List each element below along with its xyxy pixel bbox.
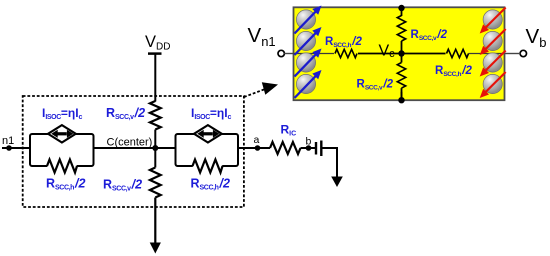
dashed box (scc model) <box>23 96 244 207</box>
sphere L2 <box>296 31 315 50</box>
svg-text:RSCC,v/2: RSCC,v/2 <box>103 178 142 193</box>
dashed arrow to yellow box <box>244 89 266 97</box>
sphere L3 <box>296 53 315 72</box>
wire Vn1 to box <box>284 53 295 55</box>
current source U2 arrow <box>203 132 213 135</box>
svg-text:RSCC,v/2: RSCC,v/2 <box>106 106 145 121</box>
svg-text:RIC: RIC <box>281 123 297 138</box>
sphere L1 <box>296 10 315 29</box>
current source loop left <box>30 134 94 166</box>
resistor Rscc,h/2 right (erase edge) <box>193 163 222 169</box>
wire resistor to center node <box>154 130 156 149</box>
sphere R3 <box>483 53 502 72</box>
wire n1 stub <box>2 147 30 149</box>
wire horizontal in box right <box>467 53 505 55</box>
wire to bottom arrow <box>154 198 156 245</box>
wire resistor to bottom node <box>401 92 403 101</box>
VDD terminal bar <box>148 52 162 55</box>
current source loop right <box>176 134 239 166</box>
wire loop to node a <box>238 147 270 149</box>
svg-text:Vb: Vb <box>526 25 547 50</box>
current source U1 arrow <box>57 132 67 135</box>
node a <box>255 145 261 151</box>
wire horizontal in box center <box>335 53 468 55</box>
wire capacitor right <box>321 148 337 178</box>
svg-text:IISOC=ηIc: IISOC=ηIc <box>191 106 232 121</box>
svg-text:C(center): C(center) <box>107 137 153 149</box>
node C center <box>152 145 158 151</box>
spin arrow R3 <box>480 51 506 77</box>
svg-text:RSCC,h/2: RSCC,h/2 <box>191 177 231 192</box>
node b <box>306 145 312 151</box>
ground arrow bottom <box>150 243 161 254</box>
resistor Rscc,h/2 left (erase edge) <box>47 163 76 169</box>
capacitor plate right <box>320 141 322 157</box>
resistor Rscc,v/2 box bottom <box>397 63 405 89</box>
resistor Rscc,h/2 box left <box>334 51 358 56</box>
node top <box>398 5 404 11</box>
resistor Rscc,v/2 upper <box>150 101 161 130</box>
wire center node down <box>154 148 156 168</box>
spin arrow L4 <box>295 70 322 98</box>
spin arrow R1 <box>480 8 506 34</box>
resistor Rscc,v/2 box top <box>397 16 405 42</box>
node n1 <box>6 145 12 151</box>
node bottom <box>398 97 404 103</box>
yellow box <box>294 7 505 100</box>
svg-text:VDD: VDD <box>145 33 170 53</box>
current source U1 diamond <box>48 125 76 142</box>
spin arrow R4 <box>480 72 506 98</box>
Vb terminal <box>520 50 526 56</box>
svg-text:RSCC,h/2: RSCC,h/2 <box>46 177 86 192</box>
svg-text:Vn1: Vn1 <box>248 24 276 49</box>
node Vc <box>398 50 404 56</box>
sphere L4 <box>296 74 315 93</box>
current source U2 diamond <box>194 125 222 142</box>
wire box to Vb <box>505 53 521 55</box>
resistor Ric <box>270 142 301 154</box>
resistor Rscc,h/2 box right <box>446 51 469 56</box>
ground arrow right <box>331 177 343 188</box>
wire horizontal in box left <box>294 53 337 55</box>
svg-text:n1: n1 <box>2 135 14 147</box>
wire VDD down <box>154 54 156 102</box>
svg-text:IISOC=ηIc: IISOC=ηIc <box>42 106 83 121</box>
spin arrow R2 <box>480 29 506 55</box>
sphere R1 <box>483 10 502 29</box>
wire between vertical resistors <box>401 41 403 63</box>
wire resistor stub <box>401 88 403 97</box>
Vn1 terminal <box>278 50 284 56</box>
wire Ric to b <box>301 147 316 149</box>
spin arrow L2 <box>295 27 322 55</box>
svg-text:a: a <box>254 134 260 146</box>
sphere R2 <box>483 31 502 50</box>
sphere R4 <box>483 74 502 93</box>
resistor Rscc,v/2 lower <box>150 168 161 198</box>
wire top node to resistor <box>401 8 403 16</box>
spin arrow L3 <box>295 49 322 77</box>
spin arrow L1 <box>295 6 322 34</box>
capacitor plate left <box>315 142 317 155</box>
wire main horizontal C(center) <box>94 147 176 149</box>
